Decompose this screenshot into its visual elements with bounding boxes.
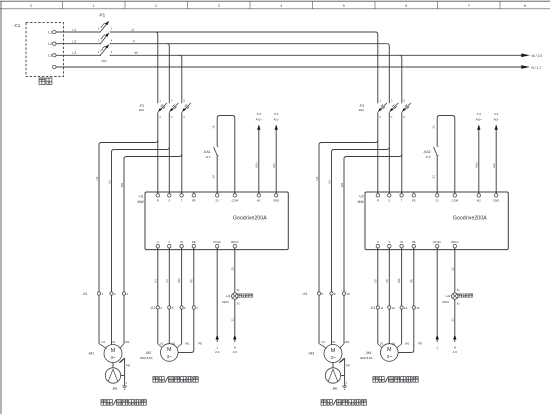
svg-text:22: 22 xyxy=(450,267,454,271)
svg-text:U5: U5 xyxy=(373,279,377,283)
svg-text:7: 7 xyxy=(468,4,470,8)
svg-text:33: 33 xyxy=(432,175,436,179)
svg-text:10: 10 xyxy=(346,292,350,296)
svg-text:L3: L3 xyxy=(48,54,52,58)
svg-text:AI2+: AI2+ xyxy=(474,161,478,168)
svg-text:N: N xyxy=(454,345,456,349)
svg-text:16A: 16A xyxy=(139,108,144,112)
svg-text:U3: U3 xyxy=(153,279,157,283)
svg-text:0: 0 xyxy=(30,4,32,8)
svg-text:13: 13 xyxy=(404,306,408,310)
svg-text:23: 23 xyxy=(450,318,454,322)
svg-text:W3: W3 xyxy=(177,278,181,283)
svg-text:/2.1: /2.1 xyxy=(206,155,211,159)
svg-text:L2: L2 xyxy=(73,40,77,44)
svg-text:4kW: 4kW xyxy=(137,200,143,204)
svg-text:AI1+: AI1+ xyxy=(256,117,263,121)
svg-text:40A: 40A xyxy=(101,59,107,63)
svg-text:12: 12 xyxy=(392,306,396,310)
svg-text:PE: PE xyxy=(189,279,193,283)
svg-text:V4: V4 xyxy=(327,180,331,184)
svg-text:AI2: AI2 xyxy=(477,198,482,202)
svg-text:U2: U2 xyxy=(95,176,99,180)
svg-text:AI2-: AI2- xyxy=(493,117,499,121)
svg-text:N / 1.7: N / 1.7 xyxy=(532,66,542,70)
svg-text:21: 21 xyxy=(230,318,234,322)
svg-text:20: 20 xyxy=(230,267,234,271)
svg-text:AI2+: AI2+ xyxy=(476,117,483,121)
svg-text:4: 4 xyxy=(280,4,282,8)
svg-text:19: 19 xyxy=(212,175,216,179)
svg-text:V5: V5 xyxy=(385,279,389,283)
svg-text:-M3: -M3 xyxy=(308,352,314,356)
svg-text:PE: PE xyxy=(409,279,413,283)
svg-text:-C1: -C1 xyxy=(14,23,21,28)
svg-text:1: 1 xyxy=(93,4,95,8)
svg-text:-M2: -M2 xyxy=(145,351,151,355)
svg-text:W / 2.0: W / 2.0 xyxy=(532,54,543,58)
svg-text:U4: U4 xyxy=(315,176,319,180)
svg-text:L1: L1 xyxy=(73,28,77,32)
svg-text:-H1: -H1 xyxy=(226,294,231,298)
svg-text:-KA1: -KA1 xyxy=(203,150,211,154)
svg-text:L3: L3 xyxy=(73,51,77,55)
svg-text:4kW: 4kW xyxy=(357,200,363,204)
svg-text:32: 32 xyxy=(432,125,436,129)
svg-text:11: 11 xyxy=(380,306,383,310)
svg-text:-P1: -P1 xyxy=(99,13,106,18)
svg-text:/2.6: /2.6 xyxy=(426,155,431,159)
svg-text:AI1-: AI1- xyxy=(273,117,279,121)
svg-text:5: 5 xyxy=(343,4,345,8)
svg-text:16A: 16A xyxy=(359,108,364,112)
svg-text:-KA2: -KA2 xyxy=(423,150,431,154)
svg-text:18: 18 xyxy=(212,125,216,129)
svg-text:N: N xyxy=(234,345,236,349)
svg-text:AI1-: AI1- xyxy=(272,162,276,168)
svg-text:1.0: 1.0 xyxy=(453,350,458,354)
svg-text:2: 2 xyxy=(155,4,157,8)
svg-text:W5: W5 xyxy=(397,278,401,283)
svg-text:AI1: AI1 xyxy=(257,198,262,202)
svg-text:-U1: -U1 xyxy=(138,194,143,198)
svg-text:-M1: -M1 xyxy=(88,352,94,356)
svg-text:W2: W2 xyxy=(120,182,124,187)
svg-text:AI2-: AI2- xyxy=(492,162,496,168)
svg-text:2.0: 2.0 xyxy=(233,350,238,354)
svg-text:V3: V3 xyxy=(165,279,169,283)
svg-text:2.0: 2.0 xyxy=(215,350,220,354)
svg-text:V2: V2 xyxy=(107,180,111,184)
svg-text:W4: W4 xyxy=(340,182,344,187)
svg-text:14: 14 xyxy=(416,306,420,310)
svg-text:AI1+: AI1+ xyxy=(254,161,258,168)
svg-text:-U2: -U2 xyxy=(358,194,363,198)
svg-text:L2: L2 xyxy=(48,42,52,46)
svg-text:-H2: -H2 xyxy=(446,294,451,298)
svg-text:8: 8 xyxy=(524,4,526,8)
svg-text:3: 3 xyxy=(218,4,220,8)
svg-text:-M4: -M4 xyxy=(365,351,371,355)
svg-text:6: 6 xyxy=(405,4,407,8)
svg-text:L1: L1 xyxy=(48,30,52,34)
